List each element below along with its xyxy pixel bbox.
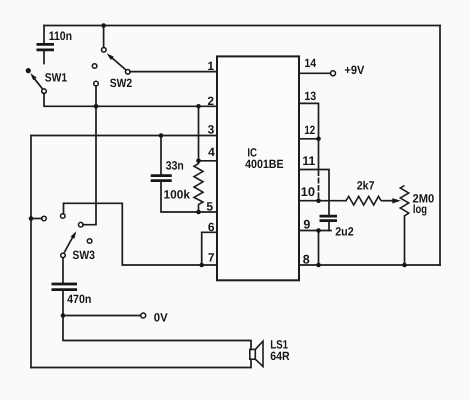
wire 470n bottom lead: [62, 290, 64, 316]
terminal +9V: [331, 71, 336, 76]
wire pin9 stub: [299, 230, 331, 232]
wire 110n bottom lead: [43, 50, 45, 64]
wire bottom speaker return: [31, 359, 251, 367]
svg-text:110n: 110n: [49, 29, 72, 43]
wire 2M0 bottom lead: [404, 216, 406, 265]
wire left rail: [30, 136, 32, 368]
svg-text:11: 11: [302, 154, 315, 168]
wire dashed link pin11 to pin10: [318, 171, 320, 201]
svg-text:1: 1: [207, 59, 214, 73]
svg-text:4001BE: 4001BE: [245, 157, 284, 171]
resistor R2 2k7: [346, 196, 381, 205]
wire 33n bottom lead to pin5: [161, 181, 217, 212]
wire 2u2 bottom lead: [328, 221, 330, 231]
svg-text:+9V: +9V: [344, 63, 364, 77]
IC U1 4001BE body: [217, 56, 299, 280]
wire pin9 to pin8 bus: [318, 231, 320, 266]
junction left rail / SW3: [29, 216, 34, 221]
svg-text:SW3: SW3: [72, 248, 95, 262]
svg-text:7: 7: [208, 251, 215, 265]
junction pin2 row / SW2-SW3 link: [94, 104, 99, 109]
junction pin4 / 100k top: [196, 159, 201, 164]
wire pin4 stub: [199, 160, 218, 162]
junction pin7 row / pin6 branch: [199, 263, 204, 268]
capacitor C3 470n: [52, 284, 78, 290]
wiper arrow into 2M0: [381, 198, 401, 203]
wire pin13 stub and link to pin11: [299, 103, 319, 169]
wire 0V spur: [63, 315, 141, 317]
capacitor C1 110n: [37, 44, 55, 50]
wire pin10 row to 2k7: [299, 200, 346, 202]
svg-text:33n: 33n: [166, 158, 184, 172]
svg-text:64R: 64R: [270, 349, 290, 363]
wire pin3 row: [31, 135, 217, 137]
terminal 0V: [141, 313, 146, 318]
wire speaker feed: [63, 316, 251, 350]
svg-text:12: 12: [304, 123, 315, 137]
svg-text:3: 3: [208, 123, 215, 137]
switch SW3: [42, 214, 92, 258]
wire SW3 pole to 470n: [62, 258, 64, 284]
svg-text:14: 14: [304, 56, 316, 70]
svg-text:2k7: 2k7: [357, 179, 375, 193]
wire pin14 stub: [299, 72, 330, 74]
wire top supply rail: [44, 25, 440, 27]
wire rail to SW3 throw A: [31, 218, 42, 220]
junction top rail / SW2: [101, 23, 106, 28]
capacitor C2 33n: [151, 176, 172, 181]
junction pin9 row: [316, 228, 321, 233]
wire SW2 top lead: [103, 26, 105, 48]
wire right rail: [439, 26, 441, 266]
wire SW3 throw B to pin7: [64, 203, 218, 265]
svg-text:10: 10: [301, 185, 315, 199]
wire pin11 stub to 2u2 top: [299, 170, 329, 216]
loudspeaker LS1: [250, 341, 263, 366]
svg-text:SW1: SW1: [45, 70, 68, 84]
junction pin8 bus / pin9 branch: [316, 263, 321, 268]
capacitor C4 2u2: [320, 216, 338, 221]
junction pin3 row / 33n branch: [159, 133, 164, 138]
wire pin1 row: [130, 71, 217, 73]
svg-text:2: 2: [207, 94, 214, 108]
resistor R1 100k: [194, 161, 203, 212]
wire pin2 row: [44, 93, 217, 106]
svg-text:4: 4: [208, 145, 215, 159]
svg-text:100k: 100k: [164, 188, 191, 202]
junction pin5 / 100k bottom: [196, 210, 201, 215]
junction 470n / 0V spur: [61, 313, 66, 318]
wire 110n top lead: [43, 26, 45, 44]
svg-text:470n: 470n: [67, 292, 91, 306]
potentiometer VR1 2M0 log: [400, 186, 408, 217]
wire pin8 bottom bus: [299, 264, 440, 266]
wire pin6 branch: [202, 232, 217, 265]
svg-text:13: 13: [304, 89, 316, 103]
svg-text:5: 5: [206, 199, 213, 213]
wire 33n top branch: [160, 136, 162, 176]
wire pin12 stub: [299, 138, 319, 140]
svg-text:6: 6: [208, 220, 215, 234]
svg-text:8: 8: [303, 253, 310, 267]
junction pin8 bus / 2M0: [402, 263, 407, 268]
svg-text:0V: 0V: [154, 310, 168, 324]
junction pin12 / pin13 link: [316, 137, 321, 142]
svg-text:SW2: SW2: [110, 76, 133, 90]
switch SW2: [92, 48, 130, 86]
switch SW1: [26, 68, 47, 93]
junction pin10 row: [316, 198, 321, 203]
svg-text:2u2: 2u2: [335, 225, 354, 239]
svg-text:9: 9: [303, 218, 310, 232]
wire SW2 to SW3 link: [83, 86, 96, 225]
wire pin2 to 100k vertical: [198, 106, 200, 161]
junction pin2 row / 100k vertical: [196, 104, 201, 109]
svg-text:log: log: [413, 202, 427, 216]
